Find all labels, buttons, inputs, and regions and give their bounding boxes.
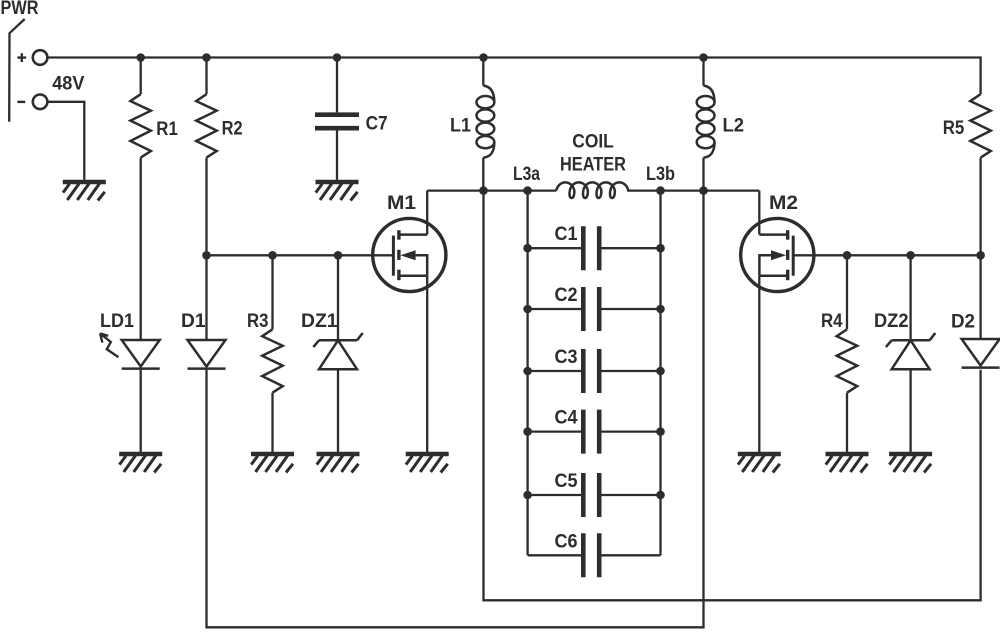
wire C5 left lead: [528, 494, 582, 496]
wire drain rail left: [427, 189, 556, 191]
switch SW1: [9, 19, 25, 122]
wire R1 top lead: [140, 58, 142, 95]
node C3 left: [523, 367, 532, 376]
svg-text:C5: C5: [555, 471, 578, 492]
wire R1 to LD1: [140, 158, 142, 340]
svg-text:D2: D2: [951, 312, 975, 333]
wire R3 to ground: [271, 393, 273, 452]
ground (M2 source): [738, 454, 781, 473]
wire C4 left lead: [528, 430, 582, 432]
ground (DZ1): [317, 454, 360, 473]
node C4 left: [523, 427, 532, 436]
diode D2: [962, 339, 1000, 368]
svg-text:DZ2: DZ2: [874, 311, 909, 332]
resistor R4: [837, 329, 858, 392]
svg-text:C4: C4: [555, 408, 578, 429]
wire top rail +48V: [47, 58, 980, 95]
capacitor C1: [583, 226, 599, 270]
wire C6 left lead: [528, 554, 582, 556]
resistor R3: [262, 329, 283, 392]
node top rail / L1: [479, 53, 488, 62]
node C5 left: [523, 491, 532, 500]
node gate M1 / R2 / D1: [202, 251, 211, 260]
node C4 right: [656, 427, 665, 436]
capacitor C4: [583, 410, 599, 454]
node top rail / L2: [699, 53, 708, 62]
terminal - (negative): [33, 95, 48, 110]
node L1 / M1 drain: [479, 186, 488, 195]
wire C3 right lead: [601, 370, 660, 372]
wire M2 source to ground: [758, 276, 760, 452]
svg-text:C2: C2: [555, 285, 578, 306]
wire C7 top lead: [336, 58, 338, 113]
resistor R5: [970, 94, 991, 157]
wire D1 top lead: [205, 255, 207, 339]
zener diode DZ2: [886, 333, 935, 369]
capacitor C3: [583, 349, 599, 393]
node C1 left: [523, 244, 532, 253]
wire LD1 to ground: [140, 370, 142, 452]
ground (M1 source): [406, 454, 449, 473]
svg-text:DZ1: DZ1: [301, 311, 338, 332]
wire R3 top lead: [271, 255, 273, 329]
svg-text:R1: R1: [156, 119, 178, 140]
svg-text:LD1: LD1: [100, 311, 134, 332]
wire C2 left lead: [528, 308, 582, 310]
wire M1 drain to D2 (cross-coupling): [484, 191, 981, 601]
node L3b: [656, 186, 665, 195]
node gate M2 / R4: [843, 251, 852, 260]
ground (R3): [251, 454, 294, 473]
capacitor C6: [583, 533, 599, 577]
node C5 right: [656, 491, 665, 500]
wire L2 top lead: [702, 58, 704, 86]
terminal + (positive): [33, 50, 48, 65]
wire DZ2 to ground: [909, 369, 911, 452]
svg-text:L2: L2: [723, 116, 745, 137]
svg-text:C7: C7: [366, 114, 388, 135]
plus sign: [17, 53, 26, 62]
wire DZ1 to ground: [337, 369, 339, 452]
svg-text:C6: C6: [555, 531, 578, 552]
svg-text:L3b: L3b: [646, 164, 675, 185]
svg-text:COIL: COIL: [572, 132, 614, 153]
capacitor C5: [583, 473, 599, 517]
svg-text:R3: R3: [247, 311, 269, 332]
zener diode DZ1: [313, 333, 362, 369]
node gate M2 / DZ2: [906, 251, 915, 260]
svg-text:PWR: PWR: [1, 0, 39, 19]
transistor M1 (n-channel MOSFET): [373, 218, 446, 291]
wire R4 top lead: [846, 255, 848, 329]
node L2 / cross wire: [699, 186, 708, 195]
svg-text:HEATER: HEATER: [560, 155, 626, 176]
diode D1: [188, 340, 226, 369]
svg-text:L3a: L3a: [513, 164, 540, 185]
wire M2 gate bus: [793, 254, 980, 256]
wire negative terminal to ground: [47, 102, 84, 180]
node C2 left: [523, 305, 532, 314]
wire tank cap right rail: [659, 191, 661, 556]
ground (R4): [826, 454, 869, 473]
LD1 emission arrow: [100, 333, 118, 357]
wire R4 to ground: [846, 393, 848, 452]
node C2 right: [656, 305, 665, 314]
node gate M2 / R5 / D2: [976, 251, 985, 260]
wire M1 drain lead: [426, 191, 428, 235]
work coil L3 (heater): [556, 182, 628, 198]
svg-text:R2: R2: [222, 119, 243, 140]
wire C4 right lead: [601, 430, 660, 432]
inductor L2: [697, 86, 715, 158]
wire C7 to ground: [336, 130, 338, 179]
svg-text:D1: D1: [181, 311, 206, 332]
capacitor C2: [583, 287, 599, 331]
node top rail / C7: [333, 53, 342, 62]
wire C5 right lead: [601, 494, 660, 496]
ground (C7): [316, 182, 359, 201]
wire C3 left lead: [528, 370, 582, 372]
svg-text:48V: 48V: [52, 74, 85, 95]
svg-text:L1: L1: [450, 116, 471, 137]
node L3a: [523, 186, 532, 195]
wire L1 bottom lead: [482, 158, 484, 191]
wire C6 right lead: [601, 554, 660, 556]
wire D1 to M2 drain (cross-coupling): [207, 191, 704, 628]
wire drain rail right: [627, 189, 759, 191]
svg-text:C1: C1: [555, 224, 578, 245]
wire M1 gate bus: [207, 254, 394, 256]
wire L1 top lead: [482, 58, 484, 86]
node top rail / R2: [202, 53, 211, 62]
node top rail / R1: [136, 53, 145, 62]
node gate M1 / DZ1: [334, 251, 343, 260]
wire DZ2 top lead: [909, 255, 911, 340]
wire C1 left lead: [528, 247, 582, 249]
node C1 right: [656, 244, 665, 253]
minus sign: [17, 101, 25, 103]
wire M1 source to ground: [426, 276, 428, 452]
wire R2 to gate node: [205, 158, 207, 256]
svg-text:R4: R4: [821, 311, 843, 332]
wire R5 to D2: [979, 158, 981, 340]
ground (LD1): [119, 454, 162, 473]
inductor L1: [477, 86, 495, 158]
transistor M2 (n-channel MOSFET): [741, 218, 814, 291]
ground (DZ2): [889, 454, 932, 473]
laser diode LD1: [122, 340, 160, 369]
wire tank cap left rail: [526, 191, 528, 556]
wire R2 top lead: [205, 58, 207, 95]
capacitor C7: [315, 115, 359, 129]
resistor R1: [130, 94, 151, 157]
svg-text:C3: C3: [555, 347, 578, 368]
wire DZ1 top lead: [337, 255, 339, 340]
node gate M1 / R3: [268, 251, 277, 260]
wire C2 right lead: [601, 308, 660, 310]
resistor R2: [196, 94, 217, 157]
node C3 right: [656, 367, 665, 376]
wire M2 drain lead: [758, 191, 760, 235]
svg-text:M2: M2: [769, 193, 798, 214]
wire C1 right lead: [601, 247, 660, 249]
ground (power supply): [63, 182, 106, 201]
wire L2 bottom lead: [702, 158, 704, 191]
svg-text:R5: R5: [943, 118, 965, 139]
svg-text:M1: M1: [387, 193, 416, 214]
